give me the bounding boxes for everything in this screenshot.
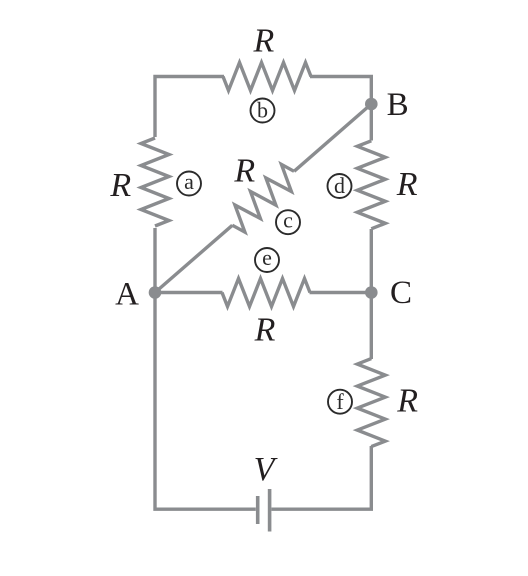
svg-text:R: R bbox=[233, 153, 255, 190]
node A dot bbox=[149, 286, 162, 299]
svg-text:V: V bbox=[254, 451, 279, 488]
resistor R a (left vertical) bbox=[141, 138, 169, 226]
svg-text:f: f bbox=[336, 389, 344, 414]
node C dot bbox=[365, 286, 378, 299]
svg-text:A: A bbox=[115, 277, 139, 313]
svg-text:R: R bbox=[254, 312, 276, 349]
svg-text:C: C bbox=[390, 275, 412, 311]
svg-text:B: B bbox=[387, 87, 409, 123]
wire: resistor f to bottom-right corner to battery plus bbox=[272, 446, 372, 509]
svg-text:c: c bbox=[283, 207, 293, 232]
svg-text:e: e bbox=[262, 245, 272, 270]
circled label c bbox=[276, 207, 300, 234]
svg-text:b: b bbox=[257, 98, 268, 123]
battery V plates bbox=[258, 489, 270, 532]
svg-text:R: R bbox=[109, 167, 131, 204]
wire: node A right to resistor e bbox=[155, 291, 223, 294]
wire: top-left corner (left riser to top rail) bbox=[155, 77, 224, 138]
resistor R f (right lower vertical) bbox=[357, 359, 385, 447]
circled label b bbox=[251, 98, 275, 123]
resistor R e (middle horizontal) bbox=[222, 279, 310, 307]
svg-text:R: R bbox=[396, 382, 418, 419]
wire: node A up to resistor a bbox=[153, 228, 156, 293]
wire: diagonal node A to resistor c bbox=[155, 225, 232, 292]
svg-text:R: R bbox=[396, 166, 418, 203]
wire: top-right corner down to node B and on to resistor d bbox=[310, 77, 371, 141]
circled label e bbox=[255, 245, 279, 272]
resistor R b (top horizontal) bbox=[223, 63, 311, 91]
wire: resistor d bottom to node C bbox=[370, 229, 373, 294]
resistor R d (right upper vertical) bbox=[357, 141, 385, 229]
wire: node C down to resistor f bbox=[370, 293, 373, 360]
circled label d bbox=[328, 173, 352, 198]
circled label f bbox=[328, 389, 352, 414]
svg-text:R: R bbox=[253, 23, 275, 60]
circled label a bbox=[177, 169, 201, 196]
wire: resistor c to node B bbox=[294, 104, 371, 171]
svg-text:a: a bbox=[184, 169, 194, 194]
wire: resistor e right to node C bbox=[310, 291, 372, 294]
resistor R c (diagonal) bbox=[223, 161, 303, 235]
node B dot bbox=[365, 98, 378, 111]
svg-text:d: d bbox=[334, 173, 345, 198]
wire: battery minus to bottom-left corner up to node A bbox=[155, 293, 256, 510]
